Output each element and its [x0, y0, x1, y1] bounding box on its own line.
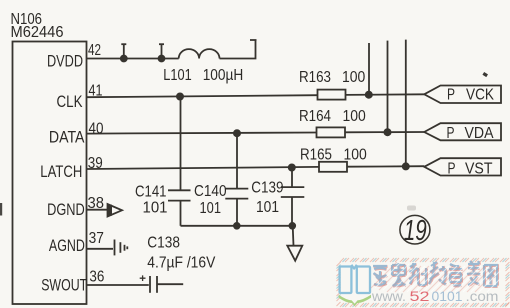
svg-text:VDA: VDA [465, 125, 494, 142]
watermark logo 520101.com [337, 258, 510, 307]
svg-text:C138: C138 [147, 235, 180, 252]
watermark hatched frame [337, 258, 510, 307]
svg-text:P: P [448, 160, 456, 177]
node G : junction LATCH to C139 [289, 164, 295, 170]
svg-text:38: 38 [88, 195, 105, 212]
node A : junction dot on DVDD with stub [121, 44, 127, 62]
connector P VDA [424, 123, 501, 140]
svg-text:C139: C139 [251, 180, 283, 197]
svg-text:CLK: CLK [57, 92, 84, 111]
wire : vertical drop to VCK node [368, 43, 370, 95]
node K : circled 19 [400, 215, 430, 244]
node F : junction R164 out [384, 129, 390, 135]
svg-text:SWOUT: SWOUT [41, 276, 87, 295]
svg-text:101: 101 [143, 200, 168, 217]
svg-text:VCK: VCK [466, 87, 494, 104]
capacitor C138 polarized [140, 275, 157, 292]
svg-text:101: 101 [256, 199, 279, 216]
resistor R165 [319, 162, 347, 172]
svg-text:41: 41 [89, 83, 103, 100]
wire : DGND pin 38 stub [87, 209, 108, 211]
resistor R163 [318, 90, 346, 100]
svg-text:0101: 0101 [432, 289, 463, 304]
svg-text:C141: C141 [135, 184, 167, 201]
book icon right page [357, 267, 370, 294]
svg-text:.com: .com [466, 289, 499, 304]
wire : R163 to P VCK [346, 93, 425, 96]
svg-text:100: 100 [343, 108, 366, 125]
svg-text:100: 100 [342, 69, 365, 86]
wire : DVDD pin 42 stub [87, 58, 179, 60]
svg-text:100µH: 100µH [203, 67, 244, 84]
node D : junction R163 out [366, 92, 372, 98]
svg-text:VST: VST [465, 160, 493, 177]
ground : triangle [287, 246, 302, 261]
svg-text:P: P [447, 125, 455, 142]
scan artifact speck [482, 72, 488, 77]
scan artifact left edge tick [0, 203, 2, 216]
wire : R164 to P VDA [345, 131, 424, 133]
book icon left page [340, 265, 370, 293]
wire : L101 to supply hook [220, 40, 257, 59]
book icon spine notch [351, 265, 356, 269]
svg-text:L101: L101 [163, 67, 191, 84]
svg-text:www.: www. [371, 289, 406, 304]
connector P VST [424, 158, 501, 175]
inductor L101 [179, 49, 220, 58]
book icon base swoosh [339, 295, 371, 306]
capacitor C140 [225, 133, 248, 226]
svg-text:C140: C140 [194, 183, 227, 200]
svg-text:DATA: DATA [49, 128, 85, 147]
ground : AGND sideways ground symbol [115, 240, 128, 256]
ground : DGND arrow symbol [108, 204, 123, 217]
wire : CLK pin 41 to R163 [87, 95, 318, 97]
svg-text:100: 100 [344, 146, 367, 163]
svg-text:4.7µF /16V: 4.7µF /16V [147, 255, 215, 272]
wire : AGND pin 37 stub [87, 248, 114, 250]
svg-text:42: 42 [88, 42, 101, 59]
node E : junction DATA to C140 [234, 130, 240, 136]
ic N106 M62446 body [13, 42, 87, 305]
node C : junction CLK to C141 [177, 93, 183, 99]
wire : C138 right lead [157, 283, 183, 285]
watermark hatch texture over text [371, 262, 500, 292]
wire : ground rail under capacitors [181, 225, 293, 227]
svg-text:AGND: AGND [49, 236, 85, 255]
scan artifact smudge above 19 [407, 206, 416, 211]
resistor R164 [317, 127, 346, 137]
watermark chinese text 家电维修资料网 (drawn strokes) [374, 262, 498, 287]
wire : LATCH pin 39 to R165 [87, 167, 320, 169]
svg-text:19: 19 [404, 215, 427, 247]
capacitor C139 [281, 167, 305, 225]
node J : rail junction at C139 [289, 223, 295, 229]
wire : R165 to P VST [347, 165, 424, 168]
node H : junction R165 out [403, 163, 409, 169]
svg-text:R163: R163 [299, 69, 331, 86]
wire : vertical drop to VST node [405, 40, 407, 167]
wire : vertical drop to VDA node [387, 41, 389, 133]
svg-text:R165: R165 [300, 146, 332, 163]
wire : DATA pin 40 to R164 [87, 133, 317, 134]
wire : SWOUT pin 36 to C138 [87, 284, 149, 286]
labels [11, 11, 64, 41]
svg-text:M62446: M62446 [11, 24, 64, 41]
svg-text:40: 40 [89, 121, 104, 138]
svg-text:37: 37 [89, 230, 104, 247]
watermark url www.520101.com [371, 289, 499, 304]
svg-text:R164: R164 [299, 108, 331, 125]
svg-text:39: 39 [88, 155, 103, 172]
capacitor C141 [168, 97, 191, 226]
connector P VCK [424, 86, 501, 104]
svg-text:DVDD: DVDD [47, 51, 83, 70]
node I : rail junction at C140 [234, 223, 240, 229]
svg-text:DGND: DGND [47, 200, 85, 219]
svg-text:LATCH: LATCH [40, 162, 82, 181]
svg-text:52: 52 [410, 289, 430, 304]
wire : rail to ground [292, 226, 295, 246]
svg-text:36: 36 [89, 268, 104, 285]
node B : junction dot on DVDD with stub [159, 44, 165, 62]
svg-text:101: 101 [200, 200, 222, 217]
svg-text:P: P [447, 87, 455, 104]
